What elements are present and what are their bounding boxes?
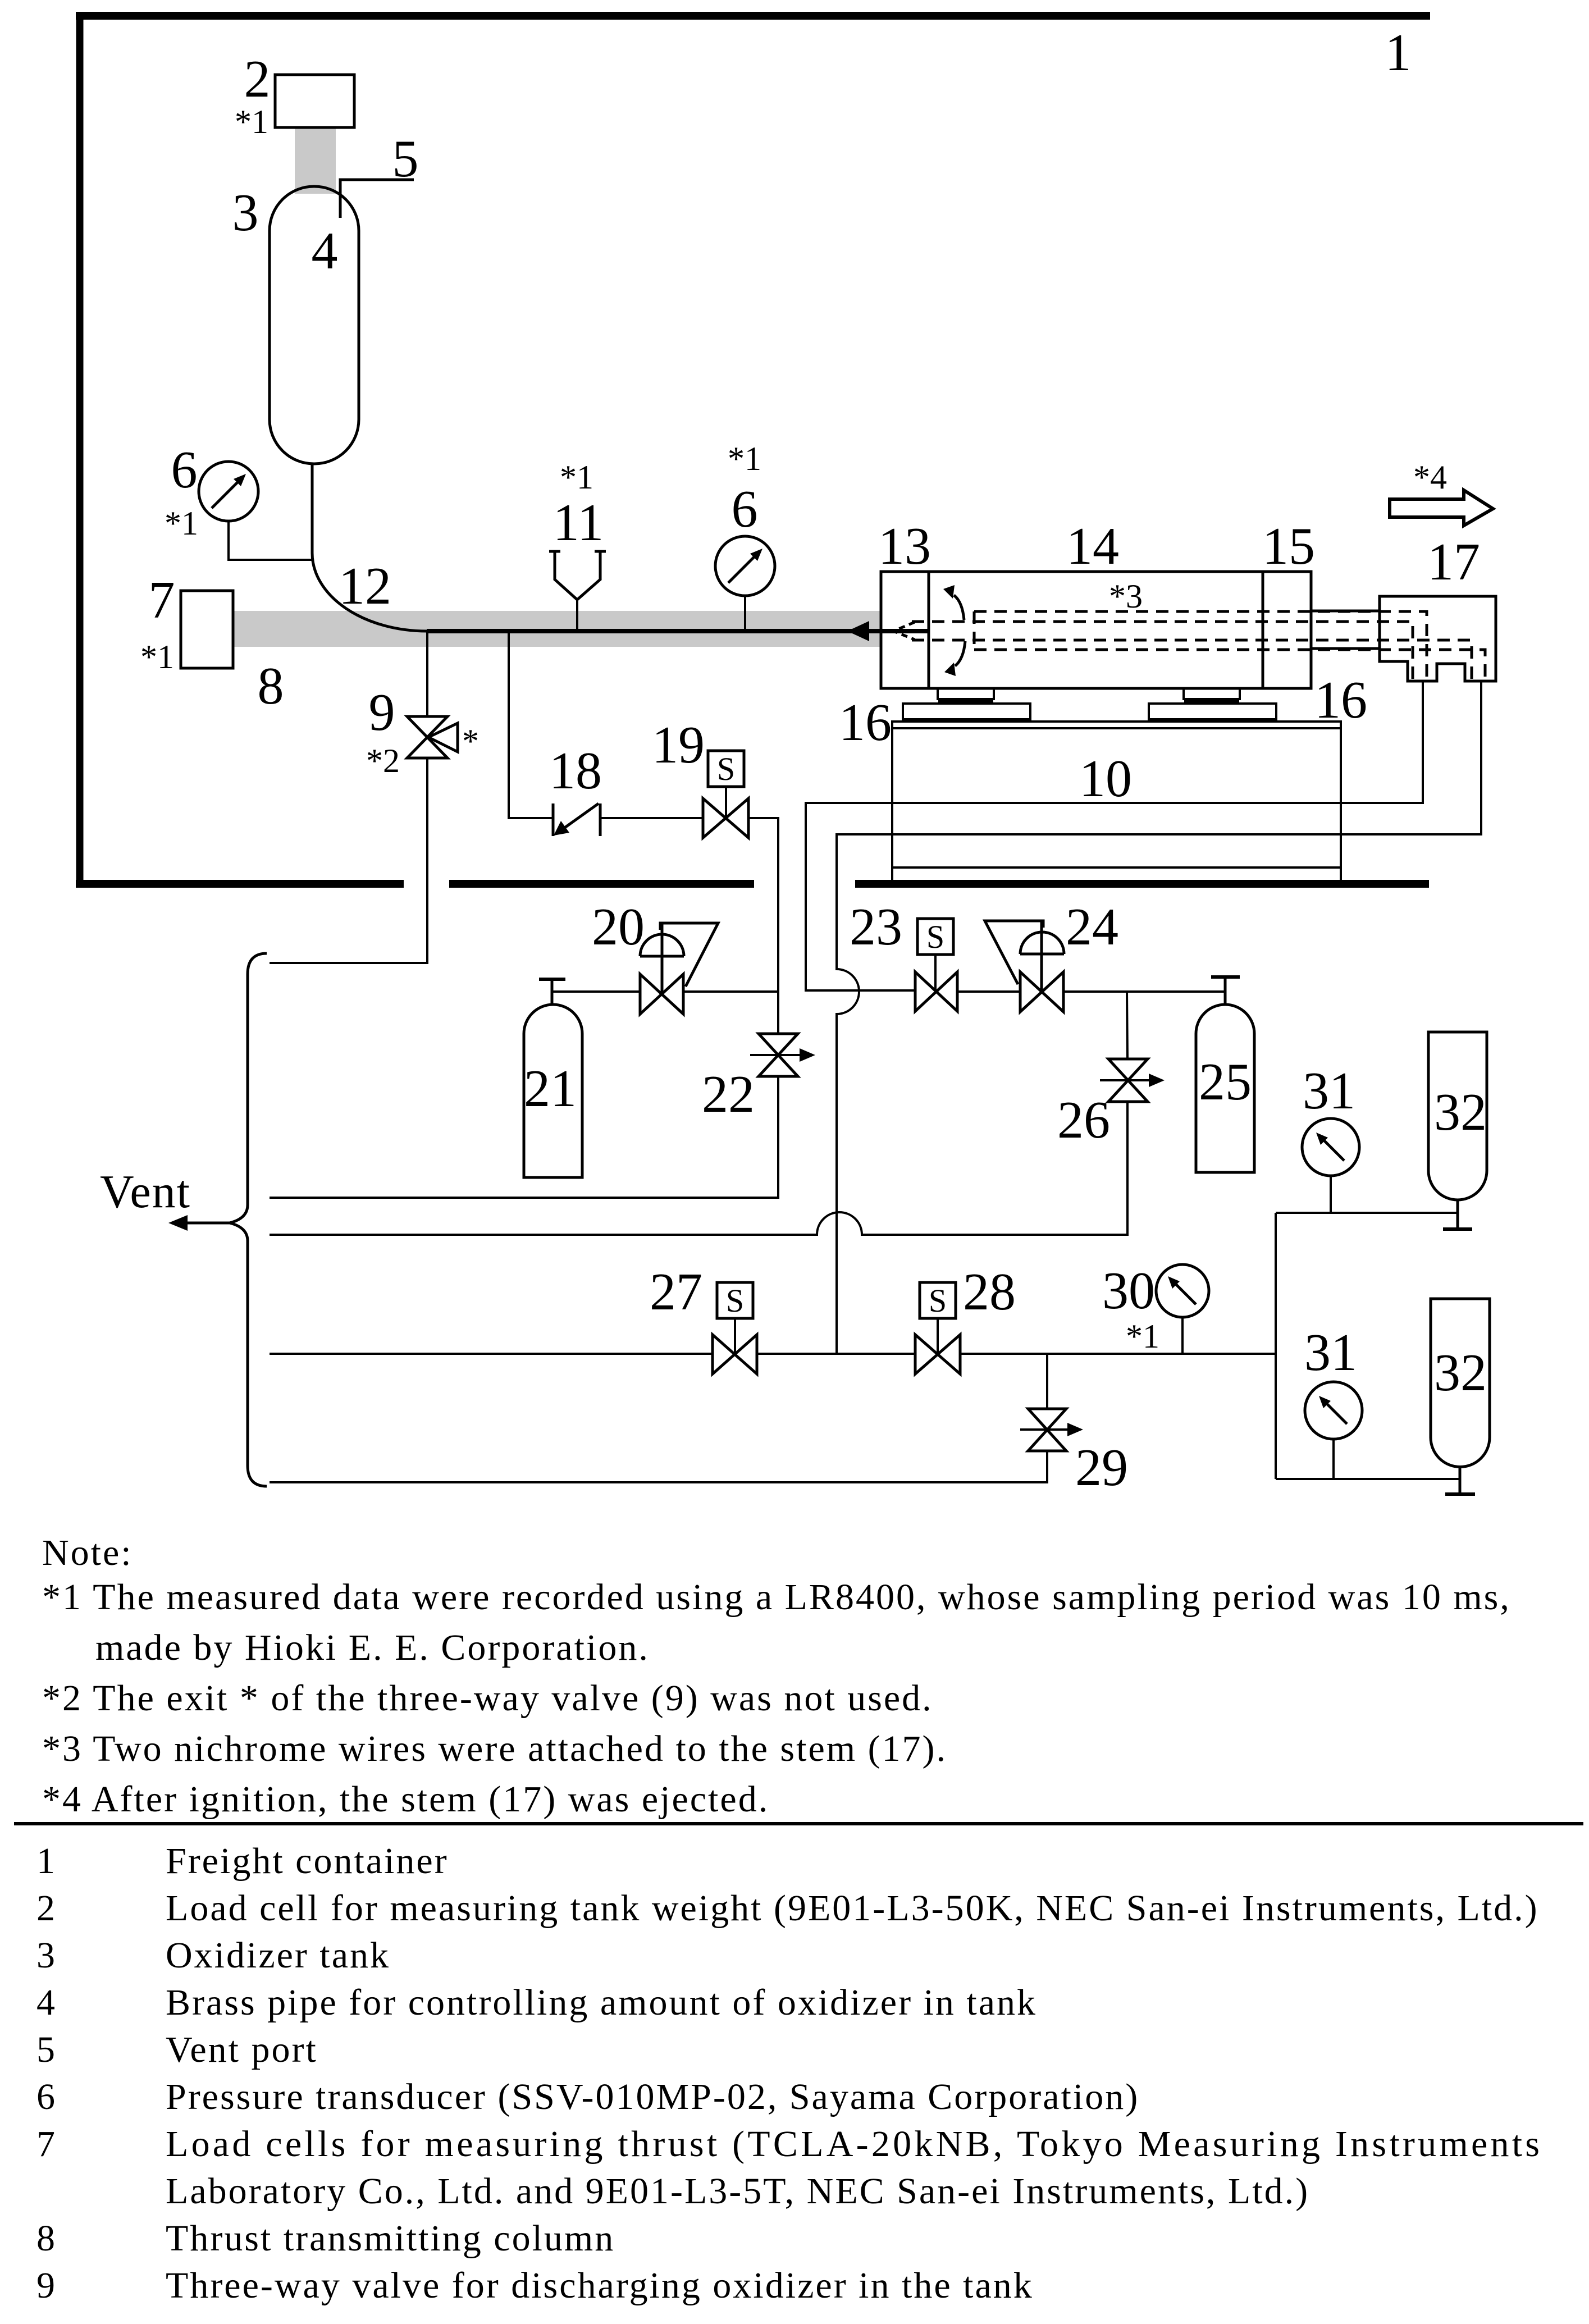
oxidizer tank 3 [270, 186, 359, 464]
svg-text:*2: *2 [366, 742, 400, 779]
svg-text:25: 25 [1199, 1053, 1252, 1111]
svg-text:Vent: Vent [100, 1166, 191, 1218]
svg-text:Load cells for measuring thrus: Load cells for measuring thrust (TCLA-20… [166, 2124, 1541, 2165]
motor head box 13 [881, 572, 929, 688]
valve 20 stem and flag [661, 923, 664, 994]
svg-text:29: 29 [1075, 1439, 1128, 1497]
lower manifold line [1276, 1478, 1460, 1480]
vent brace [230, 953, 267, 1486]
svg-text:3: 3 [232, 184, 259, 242]
svg-text:*3: *3 [1109, 578, 1143, 615]
svg-text:10: 10 [1079, 750, 1132, 808]
combustion chamber box 14 [929, 572, 1263, 688]
line from bottle 21 to valve 20 [552, 990, 640, 993]
svg-text:Laboratory Co., Ltd. and 9E01-: Laboratory Co., Ltd. and 9E01-L3-5T, NEC… [166, 2171, 1309, 2212]
svg-text:*1: *1 [165, 505, 198, 542]
svg-text:Thrust transmitting column: Thrust transmitting column [166, 2218, 615, 2259]
svg-text:31: 31 [1303, 1062, 1355, 1120]
svg-text:*1: *1 [728, 440, 761, 477]
svg-text:6: 6 [732, 480, 758, 538]
main feed pipe to engine [427, 629, 929, 633]
svg-text:*1: *1 [560, 459, 593, 496]
svg-text:8: 8 [258, 657, 284, 715]
table 10 [892, 722, 1341, 867]
line 28 to manifold right [960, 1353, 1276, 1355]
svg-text:*1: *1 [235, 103, 268, 140]
svg-text:9: 9 [36, 2265, 57, 2306]
thrust transmitting column 8 grey band [234, 611, 881, 647]
svg-text:16: 16 [839, 693, 892, 752]
svg-text:23: 23 [850, 898, 902, 956]
freight container 1 top border [76, 12, 1430, 20]
svg-text:*: * [462, 723, 479, 760]
pressure gauge 30 [1156, 1264, 1209, 1317]
svg-text:7: 7 [149, 571, 175, 629]
metering valve 22 (vertical) [759, 1034, 798, 1076]
svg-text:26: 26 [1057, 1091, 1110, 1149]
stem holder 17 block [1380, 596, 1496, 681]
vent port 5 line [340, 180, 414, 218]
valve 24 stem and flag [1040, 921, 1043, 992]
valve 22 drain down and left to vent [270, 1076, 778, 1198]
svg-text:*1: *1 [140, 638, 174, 675]
valve 26 drain down and left to vent (with hop over wire B) [270, 1102, 1127, 1235]
svg-text:Load cell for measuring tank w: Load cell for measuring tank weight (9E0… [166, 1888, 1539, 1929]
dashed stem outline inside motor [893, 611, 1485, 679]
svg-text:Brass pipe for controlling amo: Brass pipe for controlling amount of oxi… [166, 1982, 1037, 2023]
svg-text:7: 7 [36, 2124, 57, 2165]
svg-text:6: 6 [36, 2076, 57, 2117]
svg-text:1: 1 [1385, 24, 1412, 82]
pressure gauge 31 lower [1305, 1382, 1362, 1439]
freight container 1 left border [76, 12, 84, 888]
dashed stem inner bottom channel [912, 640, 1472, 679]
engine mount 16 left [938, 688, 994, 699]
dashed stem left edge [973, 611, 976, 650]
ejection block arrow *4 [1390, 490, 1493, 526]
pipe 12 from tank bottom bending right [312, 464, 427, 631]
dashed stem outer bottom channel [974, 650, 1485, 679]
line 23 to 24 [957, 990, 1020, 993]
swirl arrow lower inside 14 [955, 641, 965, 666]
svg-text:*1 The measured data were reco: *1 The measured data were recorded using… [42, 1577, 1511, 1618]
svg-text:16: 16 [1314, 671, 1367, 729]
nichrome wire line A from leg1 of 17 [806, 681, 1423, 990]
upper manifold line [1276, 1212, 1458, 1214]
svg-text:Freight container: Freight container [166, 1841, 449, 1882]
svg-text:5: 5 [392, 130, 419, 188]
svg-text:Pressure transducer (SSV-010MP: Pressure transducer (SSV-010MP-02, Sayam… [166, 2076, 1139, 2117]
svg-text:31: 31 [1304, 1323, 1357, 1382]
gauge 6 left stem wire [229, 521, 312, 560]
gauge 6 left needle [212, 477, 243, 508]
valve 29 drain down and left to vent [270, 1451, 1047, 1482]
svg-text:15: 15 [1262, 517, 1315, 576]
svg-text:12: 12 [339, 557, 391, 615]
vent arrow [174, 1222, 230, 1225]
svg-text:11: 11 [553, 494, 604, 552]
grey stem between load cell 2 and tank 3 [295, 127, 336, 194]
metering valve 26 (vertical) [1108, 1059, 1148, 1102]
branch to relief valve 29 [1046, 1354, 1048, 1409]
solenoid valve 28 bowtie [915, 1335, 960, 1374]
svg-text:S: S [929, 1282, 947, 1319]
table top rule [14, 1822, 1583, 1825]
solenoid valve 27 bowtie [713, 1335, 757, 1374]
solenoid valve 28 S-box [920, 1282, 956, 1318]
line 24 to bottle 25 [1063, 990, 1224, 993]
GN2 manifold line 3 with solenoid valves 27 and 28 [270, 1353, 713, 1355]
svg-text:14: 14 [1066, 517, 1119, 576]
svg-text:18: 18 [549, 742, 602, 800]
svg-text:4: 4 [312, 222, 338, 280]
freight container 1 bottom border segment c [855, 880, 1429, 888]
svg-text:*3 Two nichrome wires were att: *3 Two nichrome wires were attached to t… [42, 1728, 947, 1769]
svg-text:Vent port: Vent port [166, 2029, 318, 2070]
solid stem rod between 15 and 17 [1311, 610, 1380, 613]
check valve 18 symbol [552, 803, 555, 836]
svg-text:13: 13 [878, 517, 931, 576]
svg-text:S: S [726, 1282, 744, 1319]
svg-text:32: 32 [1434, 1083, 1487, 1142]
svg-text:27: 27 [650, 1263, 702, 1321]
line valve 20 to junction [683, 990, 778, 993]
dashed nozzle arrow [893, 622, 915, 640]
freight container 1 bottom border segment a [76, 880, 404, 888]
pressure gauge 31 upper [1302, 1118, 1359, 1176]
valve 24 dome [1020, 932, 1064, 954]
arrowhead on main feed pipe [847, 621, 869, 641]
line 27 to 28 [757, 1353, 915, 1355]
svg-text:20: 20 [592, 898, 645, 956]
bottle 32 lower (inverted) [1431, 1299, 1490, 1467]
nozzle box 15 [1263, 572, 1311, 688]
N2O bottle 21 [524, 1005, 582, 1177]
svg-text:22: 22 [702, 1065, 755, 1124]
regulator valve 24 bowtie [1020, 972, 1063, 1012]
nichrome wire line B from leg2 of 17 (with hop) [837, 681, 1481, 1354]
regulator valve 20 bowtie [640, 974, 683, 1014]
svg-text:S: S [717, 751, 735, 787]
svg-text:made by Hioki E. E. Corporatio: made by Hioki E. E. Corporation. [95, 1627, 650, 1668]
metering valve 29 (vertical) [1028, 1409, 1066, 1451]
svg-text:1: 1 [36, 1841, 57, 1882]
svg-text:8: 8 [36, 2218, 57, 2259]
branch down to check valve 18 [509, 633, 553, 818]
solenoid valve 23 bowtie [915, 972, 957, 1011]
bottle 32 upper (inverted) [1428, 1032, 1487, 1200]
engine mount 16 right [1184, 688, 1240, 699]
svg-text:9: 9 [369, 683, 395, 742]
svg-text:*4: *4 [1413, 459, 1447, 496]
svg-text:21: 21 [524, 1060, 577, 1118]
svg-text:17: 17 [1427, 533, 1480, 591]
svg-text:3: 3 [36, 1935, 57, 1976]
svg-text:28: 28 [963, 1263, 1016, 1321]
pressure transducer gauge 6 middle circle [715, 536, 775, 596]
funnel 11 [555, 551, 600, 600]
svg-text:24: 24 [1066, 898, 1118, 956]
valve 9 drain line down and left to vent [270, 758, 427, 963]
svg-text:Note:: Note: [42, 1532, 133, 1573]
solenoid valve 19 S-box [708, 751, 744, 787]
svg-text:*2 The exit * of the three-way: *2 The exit * of the three-way valve (9)… [42, 1678, 933, 1719]
svg-text:Three-way valve for dischargin: Three-way valve for discharging oxidizer… [166, 2265, 1034, 2306]
svg-text:2: 2 [244, 50, 271, 108]
svg-text:4: 4 [36, 1982, 57, 2023]
load cell 2 box [275, 75, 354, 127]
pressure transducer gauge 6 left circle [199, 462, 258, 521]
valve 19 outlet corner down [748, 818, 778, 1034]
GN2 bottle 25 [1196, 1005, 1254, 1172]
line from check valve 18 to solenoid valve 19 [600, 817, 703, 819]
svg-text:S: S [926, 919, 944, 955]
branch to metering valve 26 [1127, 992, 1127, 1059]
freight container 1 bottom border segment b [449, 880, 754, 888]
valve 20 dome [640, 934, 684, 956]
svg-text:6: 6 [171, 441, 198, 499]
three-way valve 9 side port triangle [428, 723, 458, 752]
svg-text:*1: *1 [1126, 1318, 1159, 1355]
dashed stem outer top channel [974, 611, 1427, 679]
svg-text:32: 32 [1434, 1344, 1487, 1402]
svg-text:2: 2 [36, 1888, 57, 1929]
load cell 7 box [181, 591, 233, 668]
swirl arrow upper inside 14 [954, 595, 964, 620]
branch down to three-way valve 9 [426, 631, 428, 716]
three-way valve 9 bowtie [407, 716, 448, 758]
svg-text:Oxidizer tank: Oxidizer tank [166, 1935, 390, 1976]
svg-text:19: 19 [652, 716, 705, 774]
svg-text:5: 5 [36, 2029, 57, 2070]
vertical link from line 3 to manifolds [1275, 1213, 1277, 1479]
svg-text:30: 30 [1102, 1262, 1155, 1320]
solenoid valve 27 S-box [717, 1282, 753, 1318]
dashed stem inner top channel [912, 622, 1413, 679]
solenoid valve 19 bowtie [703, 798, 748, 838]
solenoid valve 23 S-box [917, 919, 953, 955]
svg-text:*4 After ignition, the stem (1: *4 After ignition, the stem (17) was eje… [42, 1779, 769, 1820]
